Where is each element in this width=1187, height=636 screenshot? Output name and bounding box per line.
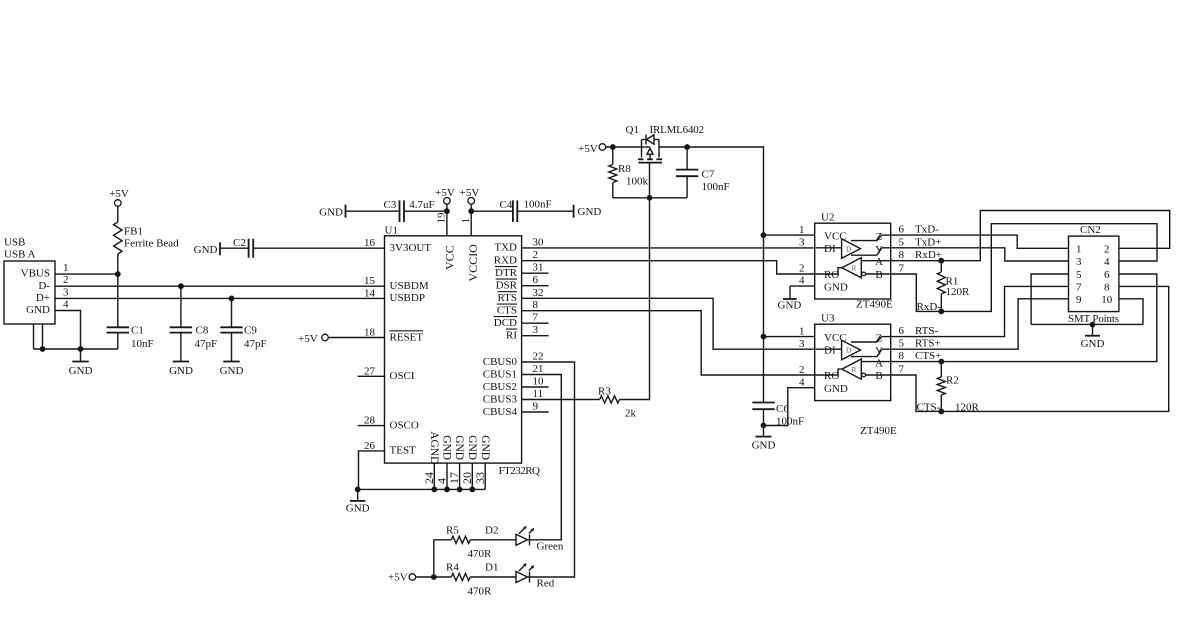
- U2 pin labels Z Y A B: [875, 231, 883, 281]
- +5V terminal VCC pin19: [435, 187, 455, 204]
- svg-text:FB1: FB1: [124, 226, 143, 238]
- svg-text:DSR: DSR: [496, 280, 518, 292]
- capacitor C9 47pF: [220, 298, 266, 361]
- svg-text:R4: R4: [446, 562, 459, 574]
- svg-text:CN2: CN2: [1080, 224, 1101, 236]
- svg-text:R: R: [852, 366, 857, 374]
- svg-text:1: 1: [799, 224, 805, 236]
- resistor R8 100k: [609, 147, 649, 198]
- ground terminal C2: [194, 242, 220, 256]
- svg-text:2: 2: [799, 364, 805, 376]
- svg-text:FT232RQ: FT232RQ: [499, 465, 541, 477]
- wire R3 to Q1 gate node: [619, 198, 649, 400]
- svg-text:USBDP: USBDP: [390, 292, 425, 304]
- capacitor C7 100nF: [676, 144, 730, 198]
- +5V terminal RESET: [298, 333, 328, 345]
- net label TxD- TxD+ RxD+: [915, 224, 942, 262]
- svg-text:+5V: +5V: [388, 572, 408, 584]
- svg-text:Red: Red: [537, 578, 555, 590]
- svg-text:B: B: [875, 269, 882, 281]
- svg-text:DI: DI: [824, 243, 836, 255]
- svg-text:32: 32: [533, 287, 544, 299]
- capacitor C1 10nF: [107, 274, 154, 350]
- svg-text:VBUS: VBUS: [21, 268, 50, 280]
- wire +5V to RESET pin18: [328, 337, 384, 339]
- IC U2 ZT490E box: [815, 212, 891, 300]
- svg-text:1: 1: [799, 326, 805, 338]
- svg-text:9: 9: [533, 401, 539, 413]
- USB pin numbers 1 2 3 4: [63, 262, 69, 310]
- ground symbol U1: [346, 489, 370, 514]
- svg-text:2: 2: [533, 249, 539, 261]
- svg-text:7: 7: [533, 312, 539, 324]
- ground symbol C8: [169, 362, 193, 378]
- svg-text:2: 2: [1104, 243, 1110, 255]
- net label CTS-: [917, 401, 980, 413]
- svg-text:26: 26: [364, 440, 376, 452]
- CN2 ground bus: [1031, 322, 1143, 328]
- wire USB GND pin4 down to ground bus: [55, 311, 81, 350]
- svg-text:C8: C8: [196, 325, 209, 337]
- svg-text:U3: U3: [821, 313, 835, 325]
- svg-text:470R: 470R: [468, 548, 493, 560]
- ground symbol USB: [69, 349, 93, 377]
- svg-text:B: B: [875, 370, 882, 382]
- U3 driver output wires Z Y: [851, 337, 891, 357]
- IC U2 name ZT490E: [856, 299, 893, 311]
- U3 receiver triangle: [842, 359, 861, 379]
- svg-text:R: R: [852, 265, 857, 273]
- svg-text:USB: USB: [4, 236, 25, 248]
- svg-text:+5V: +5V: [460, 187, 480, 199]
- svg-text:Green: Green: [537, 540, 564, 552]
- svg-text:D2: D2: [485, 525, 498, 537]
- svg-text:5: 5: [899, 236, 905, 248]
- ground terminal C3: [319, 205, 345, 219]
- svg-text:1: 1: [460, 218, 472, 224]
- +5V terminal above FB1: [109, 188, 129, 206]
- svg-text:GND: GND: [824, 383, 848, 395]
- wire D- pin2 to U1 USBDM: [55, 283, 385, 289]
- svg-text:TxD-: TxD-: [915, 224, 939, 236]
- svg-text:10: 10: [1101, 294, 1113, 306]
- wire CTS to U3 RO: [522, 311, 815, 375]
- resistor R5 470R: [446, 525, 492, 560]
- IC U3 name ZT490E: [860, 425, 897, 437]
- svg-text:4: 4: [799, 274, 805, 286]
- ferrite bead FB1: [114, 206, 180, 274]
- resistor R3 2k: [598, 386, 637, 420]
- svg-text:3: 3: [799, 237, 805, 249]
- ground symbol U2: [778, 286, 802, 312]
- wire +5V to VCCIO pin 1: [460, 204, 474, 236]
- svg-text:D+: D+: [36, 292, 50, 304]
- svg-text:VCC: VCC: [824, 332, 847, 344]
- svg-text:C4: C4: [500, 199, 513, 211]
- svg-text:VCCIO: VCCIO: [466, 244, 480, 282]
- svg-text:10: 10: [533, 376, 545, 388]
- transistor Q1 IRLML6402: [626, 124, 705, 198]
- svg-text:GND: GND: [752, 440, 776, 452]
- svg-text:RTS: RTS: [497, 292, 517, 304]
- wire U2 Y to CN2 pin3 TxD+: [891, 248, 1069, 261]
- svg-text:4: 4: [63, 299, 69, 311]
- U3 right pin numbers: [899, 325, 905, 375]
- svg-text:1: 1: [63, 262, 69, 274]
- svg-text:CTS+: CTS+: [915, 350, 941, 362]
- svg-text:R8: R8: [618, 163, 631, 175]
- svg-text:C3: C3: [384, 199, 397, 211]
- svg-text:100nF: 100nF: [524, 199, 552, 211]
- svg-text:GND: GND: [26, 304, 50, 316]
- svg-text:3: 3: [799, 338, 805, 350]
- ground symbol C6: [752, 426, 776, 452]
- svg-text:6: 6: [1104, 269, 1110, 281]
- svg-text:100nF: 100nF: [702, 181, 730, 193]
- svg-text:GND: GND: [778, 300, 802, 312]
- wire CN2 pin5 to ground bus: [1031, 274, 1068, 324]
- wire R5 to D2: [470, 539, 516, 541]
- net label RTS- RTS+ CTS+: [915, 325, 941, 362]
- svg-text:10nF: 10nF: [131, 338, 154, 350]
- svg-text:TXD: TXD: [494, 242, 517, 254]
- +5V terminal LEDs: [388, 572, 416, 584]
- U1 pin28 OSCO stub: [358, 425, 385, 427]
- svg-text:2k: 2k: [625, 408, 637, 420]
- svg-text:9: 9: [1076, 294, 1082, 306]
- svg-text:CTS: CTS: [497, 305, 517, 317]
- U2 left pin numbers: [799, 224, 805, 286]
- resistor R2 120R: [937, 362, 959, 412]
- U1 rotated bottom labels AGND GND: [428, 431, 491, 464]
- svg-text:3V3OUT: 3V3OUT: [390, 242, 432, 254]
- svg-text:33: 33: [473, 472, 487, 484]
- svg-text:14: 14: [364, 287, 376, 299]
- wire U2 B RxD- to CN2 pin4: [891, 224, 1157, 315]
- wire Q1 drain to U2 U3 VCC rail: [659, 147, 766, 403]
- svg-text:47pF: 47pF: [244, 338, 267, 350]
- U2 driver output wires Z Y: [851, 235, 891, 255]
- U2 receiver triangle: [842, 258, 861, 278]
- svg-text:CBUS1: CBUS1: [483, 368, 517, 380]
- svg-text:U1: U1: [385, 225, 398, 237]
- ground symbol CN2: [1081, 325, 1105, 350]
- svg-text:CBUS2: CBUS2: [483, 381, 517, 393]
- svg-text:RXD: RXD: [494, 255, 517, 267]
- svg-text:DTR: DTR: [495, 267, 518, 279]
- svg-text:D: D: [846, 245, 851, 253]
- wire U3 Z RTS- to CN2 pin7: [891, 286, 1069, 336]
- U3 left pin numbers: [799, 326, 805, 389]
- wire +5V to VCC pin 19: [436, 204, 450, 236]
- resistor R1 120R: [937, 261, 970, 312]
- IC U1 FT232RQ box: [385, 225, 522, 464]
- svg-text:18: 18: [364, 327, 376, 339]
- U3 pin labels Z Y A B: [875, 333, 883, 383]
- svg-text:IRLML6402: IRLML6402: [650, 124, 705, 136]
- U2 right pin numbers: [899, 224, 905, 275]
- U2 driver triangle: [815, 239, 861, 258]
- USB pin labels VBUS D- D+ GND: [21, 268, 51, 316]
- svg-text:22: 22: [533, 351, 544, 363]
- svg-text:RTS-: RTS-: [915, 325, 939, 337]
- svg-text:OSCI: OSCI: [390, 370, 415, 382]
- svg-text:VCC: VCC: [443, 245, 457, 270]
- svg-text:ZT490E: ZT490E: [860, 425, 897, 437]
- svg-text:C1: C1: [131, 325, 144, 337]
- wire R4 to D1: [470, 576, 516, 578]
- U1 right pin numbers: [533, 236, 545, 412]
- svg-text:OSCO: OSCO: [390, 419, 419, 431]
- svg-text:4: 4: [1104, 256, 1110, 268]
- svg-text:+5V: +5V: [109, 188, 129, 200]
- U1 unconnected stubs DTR DSR DCD RI CBUS2 CBUS4: [522, 273, 549, 412]
- wire USB shield stubs: [34, 324, 43, 349]
- svg-text:A: A: [875, 357, 883, 369]
- svg-text:RxD+: RxD+: [915, 249, 942, 261]
- connector CN2 box: [1069, 224, 1119, 311]
- U2 receiver input wires A B: [861, 261, 890, 276]
- svg-text:USBDM: USBDM: [390, 280, 429, 292]
- svg-text:3: 3: [1076, 256, 1082, 268]
- svg-text:8: 8: [899, 350, 905, 362]
- svg-text:DI: DI: [824, 344, 836, 356]
- svg-text:5: 5: [1076, 269, 1082, 281]
- svg-text:2: 2: [63, 274, 69, 286]
- svg-text:D: D: [846, 347, 851, 355]
- wire U2 Z to CN2 pin1 TxD-: [891, 235, 1069, 248]
- wire RXD to U2 RO: [522, 261, 815, 274]
- capacitor C2: [220, 237, 385, 258]
- U2 receiver output wire RO: [815, 268, 842, 274]
- svg-text:+5V: +5V: [298, 333, 318, 345]
- svg-text:8: 8: [533, 299, 539, 311]
- svg-text:21: 21: [533, 363, 544, 375]
- svg-text:Y: Y: [875, 244, 883, 256]
- svg-text:31: 31: [533, 262, 544, 274]
- svg-text:CBUS3: CBUS3: [483, 393, 518, 405]
- U3 pin labels VCC DI RO GND: [824, 332, 848, 395]
- svg-text:R5: R5: [446, 525, 459, 537]
- IC U1 name FT232RQ: [499, 465, 541, 477]
- wire USB ground bus: [34, 346, 118, 352]
- svg-text:8: 8: [1104, 281, 1110, 293]
- svg-text:CBUS4: CBUS4: [483, 406, 518, 418]
- wire U3 pin4 GND to C6: [764, 388, 815, 426]
- wire U2 A RxD+ to CN2 pin2: [891, 211, 1170, 264]
- svg-text:GND: GND: [69, 365, 93, 377]
- ground symbol C9: [220, 362, 244, 378]
- +5V terminal Q1: [578, 143, 606, 155]
- svg-text:GND: GND: [194, 244, 218, 256]
- U3 receiver output wire RO: [815, 369, 842, 375]
- svg-text:GND: GND: [1081, 338, 1105, 350]
- svg-text:R3: R3: [598, 386, 611, 398]
- svg-text:RO: RO: [824, 370, 839, 382]
- capacitor C3 4.7uF: [346, 199, 447, 222]
- wire U3 Y RTS+ to CN2 pin9: [891, 299, 1069, 349]
- svg-text:6: 6: [899, 224, 905, 236]
- U1 rotated pin labels VCC VCCIO: [443, 244, 481, 282]
- U3 receiver input wires A B: [861, 362, 890, 377]
- wire VCC rail to U3 pin1: [764, 336, 815, 338]
- U1 bottom ground bus: [355, 487, 485, 493]
- svg-text:GND: GND: [824, 281, 848, 293]
- wire RTS to U3 DI: [522, 298, 815, 349]
- svg-text:TxD+: TxD+: [915, 236, 941, 248]
- CN2 label SMT Points: [1068, 313, 1119, 325]
- svg-text:+5V: +5V: [435, 187, 455, 199]
- wire VCC rail to U2 pin1: [764, 234, 815, 236]
- svg-text:C9: C9: [244, 325, 257, 337]
- svg-text:100k: 100k: [626, 175, 649, 187]
- svg-text:3: 3: [533, 324, 539, 336]
- svg-text:3: 3: [63, 286, 69, 298]
- svg-text:2: 2: [799, 262, 805, 274]
- svg-text:4.7uF: 4.7uF: [409, 199, 434, 211]
- svg-text:GND: GND: [169, 365, 193, 377]
- U2 pin labels VCC DI RO GND: [824, 230, 848, 293]
- svg-text:7: 7: [899, 263, 905, 275]
- U1 pin26 TEST wire to ground bus: [359, 451, 385, 490]
- +5V terminal VCCIO pin1: [460, 187, 480, 204]
- svg-text:8: 8: [899, 249, 905, 261]
- wire D+ pin3 to U1 USBDP: [55, 296, 385, 302]
- svg-text:47pF: 47pF: [195, 338, 218, 350]
- svg-text:5: 5: [899, 338, 905, 350]
- svg-text:DCD: DCD: [494, 317, 517, 329]
- svg-text:USB A: USB A: [4, 248, 36, 260]
- U1 right pin labels: [483, 242, 518, 418]
- svg-text:7: 7: [1076, 281, 1082, 293]
- svg-text:C2: C2: [233, 237, 246, 249]
- IC U3 ZT490E box: [815, 313, 891, 401]
- svg-text:15: 15: [364, 275, 376, 287]
- svg-text:1: 1: [1076, 243, 1082, 255]
- svg-text:Q1: Q1: [626, 124, 639, 136]
- svg-text:11: 11: [533, 388, 544, 400]
- svg-text:GND: GND: [466, 435, 478, 460]
- svg-text:6: 6: [533, 274, 539, 286]
- svg-text:27: 27: [364, 365, 376, 377]
- CN2 pin numbers: [1076, 243, 1113, 305]
- svg-text:470R: 470R: [468, 586, 493, 598]
- svg-text:7: 7: [899, 364, 905, 376]
- svg-text:4: 4: [799, 377, 805, 389]
- svg-text:+5V: +5V: [578, 143, 598, 155]
- svg-text:CBUS0: CBUS0: [483, 356, 518, 368]
- svg-text:R2: R2: [946, 374, 959, 386]
- U3 driver triangle: [815, 340, 861, 359]
- wire R8 C7 gate node: [613, 195, 687, 201]
- svg-text:A: A: [875, 256, 883, 268]
- wire U2 pin4 GND: [790, 285, 815, 287]
- svg-text:C7: C7: [702, 169, 715, 181]
- wire VBUS pin1 to FB1: [55, 271, 121, 277]
- wire CN2 pin10 to ground bus: [1119, 299, 1143, 325]
- svg-text:RO: RO: [824, 269, 839, 281]
- svg-text:GND: GND: [220, 365, 244, 377]
- svg-text:GND: GND: [319, 207, 343, 219]
- svg-text:D1: D1: [485, 562, 498, 574]
- svg-text:GND: GND: [346, 503, 370, 515]
- wire +5V to R4 R5: [416, 540, 452, 580]
- wire TXD to U2 DI: [522, 247, 815, 249]
- svg-text:TEST: TEST: [390, 445, 417, 457]
- wire U3 A CTS+ to CN2 pin6: [891, 274, 1157, 365]
- capacitor C4 100nF: [471, 199, 573, 222]
- U1 left pin labels: [390, 242, 432, 457]
- svg-text:120R: 120R: [946, 286, 971, 298]
- svg-text:28: 28: [364, 415, 376, 427]
- svg-text:AGND: AGND: [428, 431, 440, 464]
- resistor R4 470R: [446, 562, 492, 598]
- wire U3 B CTS- to CN2 pin8: [891, 286, 1169, 414]
- svg-text:20: 20: [460, 472, 474, 484]
- svg-text:6: 6: [899, 325, 905, 337]
- LED D2 Green: [485, 525, 564, 553]
- net label RxD-: [917, 301, 942, 313]
- U1 rotated bottom pin numbers 24 4 17 20 33: [422, 472, 487, 484]
- wire CBUS0 to LED D1: [522, 362, 575, 577]
- svg-text:U2: U2: [821, 212, 834, 224]
- svg-text:Y: Y: [875, 345, 883, 357]
- LED D1 Red: [485, 562, 555, 590]
- wire CBUS3 to R3: [522, 399, 600, 401]
- U1 left pin numbers: [364, 237, 376, 452]
- svg-text:ZT490E: ZT490E: [856, 299, 893, 311]
- svg-text:D-: D-: [38, 280, 50, 292]
- svg-text:GND: GND: [479, 435, 491, 460]
- svg-text:GND: GND: [578, 206, 602, 218]
- capacitor C8 47pF: [170, 286, 217, 361]
- svg-text:16: 16: [364, 237, 376, 249]
- ground terminal C4: [574, 205, 602, 218]
- svg-text:RESET: RESET: [390, 331, 424, 343]
- wire CBUS1 to LED D2: [522, 375, 562, 540]
- U1 bottom ground pins: [434, 463, 485, 489]
- svg-text:30: 30: [533, 236, 545, 248]
- svg-text:Ferrite Bead: Ferrite Bead: [124, 238, 179, 250]
- U1 pin27 OSCI stub: [358, 375, 385, 377]
- USB connector CN1 box: [4, 236, 55, 324]
- svg-text:RTS+: RTS+: [915, 338, 941, 350]
- svg-text:GND: GND: [453, 435, 465, 460]
- svg-text:GND: GND: [441, 435, 453, 460]
- svg-text:RI: RI: [506, 330, 517, 342]
- wire +5V to Q1 source: [606, 144, 642, 150]
- capacitor C6 100nF: [752, 403, 804, 429]
- svg-text:19: 19: [436, 212, 448, 224]
